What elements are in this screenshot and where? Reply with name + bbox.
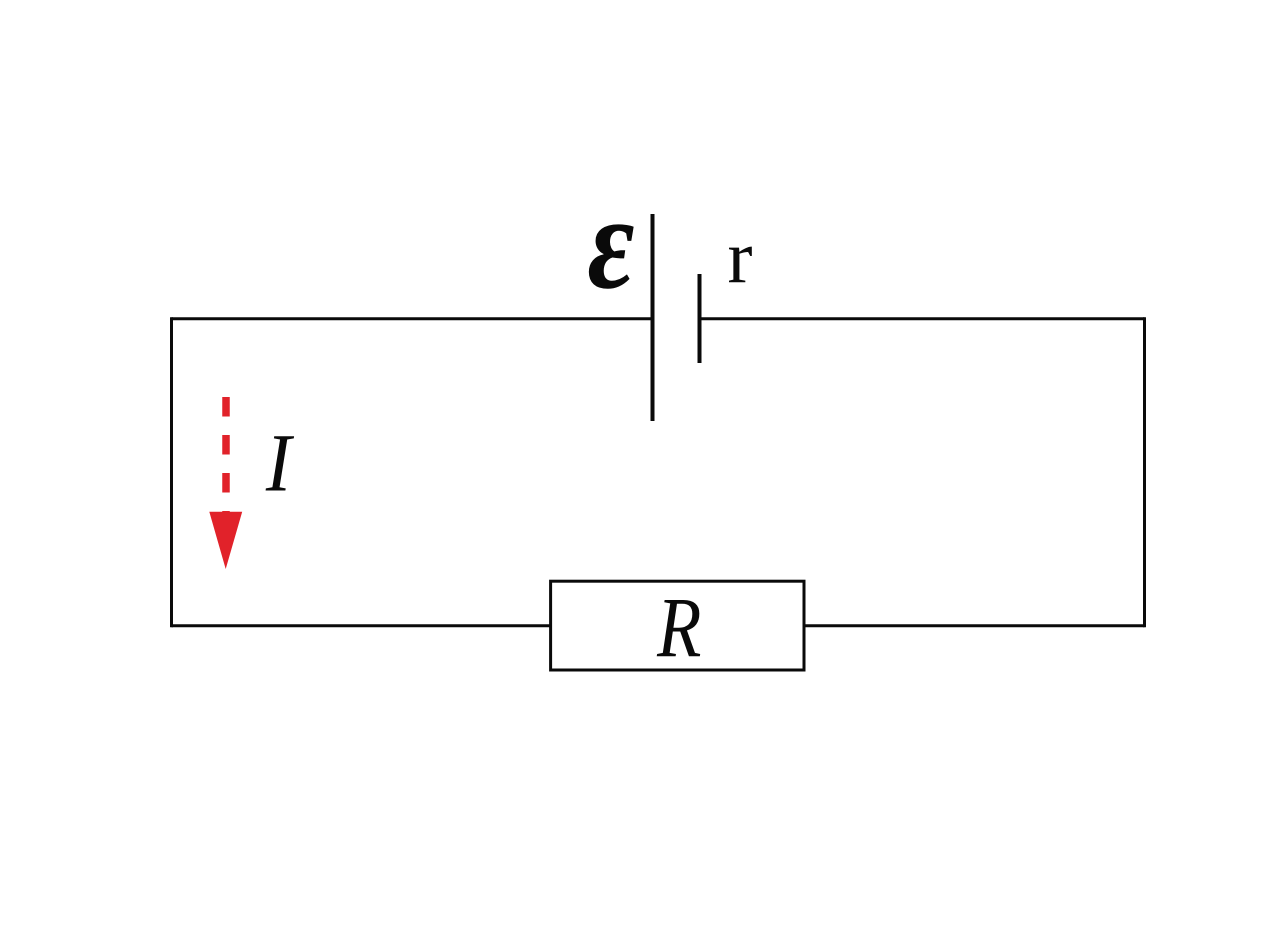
- wire top-right segment: [700, 317, 1145, 320]
- wire bottom-left segment: [172, 624, 552, 627]
- svg-text:R: R: [656, 581, 701, 676]
- svg-text:ε: ε: [588, 168, 635, 316]
- battery short plate (negative terminal): [698, 274, 702, 363]
- wire left side: [170, 317, 173, 627]
- label R: [656, 581, 701, 676]
- wire bottom-right segment: [804, 624, 1145, 627]
- label epsilon (EMF): [588, 168, 635, 316]
- current arrowhead: [209, 512, 242, 569]
- label I (current): [265, 419, 295, 509]
- svg-text:r: r: [728, 216, 753, 299]
- resistor R box: [551, 581, 804, 670]
- current arrow dashed shaft: [222, 397, 230, 516]
- wire right side: [1143, 317, 1146, 627]
- battery long plate (positive terminal): [651, 214, 655, 421]
- wire top-left segment: [172, 317, 653, 320]
- svg-text:I: I: [265, 419, 295, 509]
